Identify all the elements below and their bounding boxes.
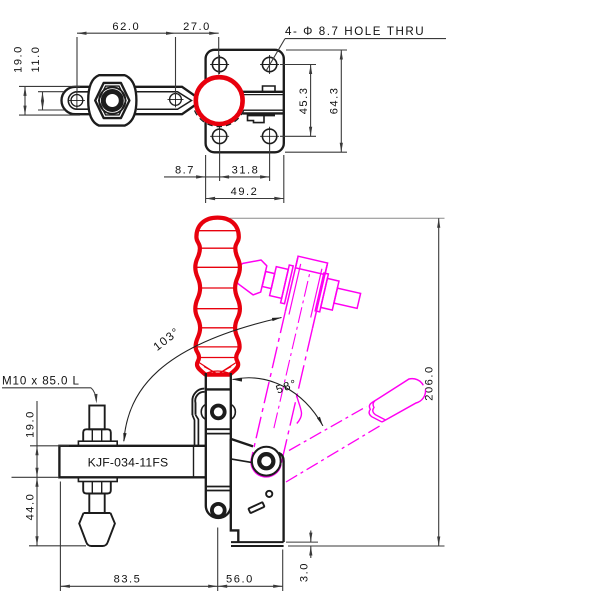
pivot boss outline [252,447,281,476]
spindle rod bottom [89,494,104,514]
dimension 8.7 [205,155,207,203]
stamped slot [248,502,264,513]
spindle washer top [78,441,117,446]
dimension 27.0 [218,37,220,75]
svg-text:83.5: 83.5 [114,573,142,585]
open arm inner edges (top portion) [289,264,301,315]
closed handle grip (red) [195,218,240,375]
svg-text:45.3: 45.3 [298,87,310,115]
open position: handle stem phantom lines [289,407,367,451]
spindle washer bottom [78,477,117,481]
top view: hidden dashes below handle circle [195,110,244,127]
lever bar crossing lines lower [206,486,231,488]
open position: handle grip outline [372,379,424,403]
dimension 3.0 [286,541,318,543]
206.0 top reference line [230,217,445,219]
top view: nut circle outer [99,87,125,113]
hook bracket (arm front plate) [192,389,204,415]
top view: rib latch [248,113,265,122]
open arm rounded end around pivot [251,458,281,477]
lower rivet [212,504,225,517]
dimension 19.0 (top view) [19,85,80,87]
upper rivet [201,404,235,419]
top view: nut circle inner thick [103,92,121,110]
open arm end cap [296,256,328,274]
top view: centre rib right of handle [243,92,284,114]
svg-text:11.0: 11.0 [30,46,42,73]
svg-text:31.8: 31.8 [232,165,260,177]
body side plate [231,439,284,542]
handle grip section lines (red) [198,230,238,232]
top view: bolt hole bottom-right [260,127,279,146]
top view: arm pivot mark [168,91,184,107]
base lip bottom [231,545,284,547]
spindle hex nut bottom [83,482,111,494]
dimension 11.0 (top view) [38,91,64,93]
open position: hex nut right [321,278,339,310]
lever bar crossing line (link plate top) [206,388,231,390]
dimension 206.0 [438,218,440,546]
dimension 62.0 [76,37,78,92]
dimension 83.5 [59,482,61,592]
gusset inner line [231,459,252,463]
svg-text:19.0: 19.0 [13,45,25,73]
open position: rod left [262,272,275,289]
dimension 45.3 [280,64,316,66]
svg-text:KJF-034-11FS: KJF-034-11FS [88,456,169,470]
svg-text:8.7: 8.7 [175,165,195,177]
spindle hex nut top [83,429,111,441]
206.0 bottom reference line [288,545,445,547]
open arm centreline [274,274,310,428]
top view: nut boss [88,75,136,125]
dimension 44.0 [29,545,86,547]
svg-text:19.0: 19.0 [24,410,36,438]
open position: arm bar outline (magenta) [285,258,297,312]
small hole in plate [266,491,272,497]
top view: bolt hole top-right [260,55,279,74]
svg-text:3.0: 3.0 [299,562,311,582]
103 degree arc [124,318,282,442]
svg-text:49.2: 49.2 [231,186,259,198]
spindle rubber tip [79,513,115,546]
open position: hex nut left [270,267,289,299]
open position: rubber tip [236,260,266,295]
bar arm (horizontal, black) [59,446,206,478]
base bottom edge [231,541,284,543]
open position: spindle rod right [334,288,361,308]
svg-text:44.0: 44.0 [24,493,36,521]
dimension 56.0 [282,550,284,592]
dimension 64.3 [286,49,347,51]
top view: hex nut inner facet [99,86,126,115]
svg-text:4- Φ 8.7 HOLE THRU: 4- Φ 8.7 HOLE THRU [285,25,425,38]
top view: U-bar inner outline [68,92,95,109]
open position: washer left [281,265,294,304]
top view: U-bar pivot mark [69,92,85,108]
top view: bolt hole top-left [210,55,229,74]
top view: handle cross-section red circle [196,77,243,124]
handle bottom cone lines (red) [199,363,236,375]
dimension 31.8 [220,176,270,178]
top view: rib tab [263,86,276,92]
svg-text:27.0: 27.0 [183,21,211,33]
spindle threaded rod top [89,406,104,430]
dimension 19.0 (bottom view) [30,445,69,447]
open handle grip waist notch [369,401,385,422]
top view: U-bar outer outline [62,87,101,114]
top view: arm inner edges [137,92,192,109]
svg-text:64.3: 64.3 [329,87,341,115]
lever bar crossing lines mid [206,428,231,430]
top view: hex nut [95,83,129,118]
svg-text:62.0: 62.0 [112,21,140,33]
svg-text:56.0: 56.0 [226,573,254,585]
top view: arm outer edges [130,87,198,114]
lever bar (black) [206,373,231,518]
dimension 49.2 [206,198,284,200]
top view: bolt hole bottom-left [210,127,229,146]
58 degree arc [233,378,323,426]
open position: washer right [315,273,328,312]
top view: mounting plate [206,50,284,153]
svg-text:M10 x 85.0 L: M10 x 85.0 L [2,374,80,387]
pivot rivet [259,454,273,468]
